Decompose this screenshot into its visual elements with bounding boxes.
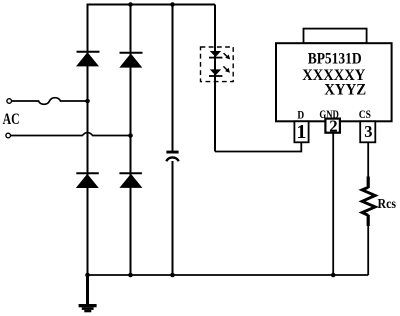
pin 1 number <box>296 121 306 143</box>
wire resistor to bottom bus <box>367 226 369 276</box>
wire bridge right vertical V2 <box>130 5 132 276</box>
pin label CS <box>359 109 371 121</box>
svg-text:CS: CS <box>359 109 371 121</box>
junction node bottom bus/GND pin <box>331 273 336 278</box>
wire GND pin down <box>332 133 334 275</box>
wire bridge left vertical V1 <box>87 4 89 276</box>
wire LED string vertical <box>214 5 216 152</box>
svg-text:1: 1 <box>296 121 306 143</box>
svg-text:2: 2 <box>329 117 337 136</box>
diode D1 (upper left) <box>76 52 100 67</box>
resistor Rcs zigzag body <box>362 187 375 215</box>
IC U1 body BP5131D <box>276 43 392 121</box>
IC U1 mounting tab <box>304 29 367 44</box>
pin label GND <box>319 109 339 121</box>
junction node bottom bus/V2 <box>128 273 133 278</box>
diode D4 (lower right) <box>119 173 142 188</box>
svg-text:D: D <box>297 109 304 121</box>
IC text XXXXXY <box>302 66 365 84</box>
label AC <box>3 111 20 128</box>
wire top bus <box>88 4 216 6</box>
diode D2 (upper right) <box>119 53 142 68</box>
junction node bottom bus/ground <box>85 273 90 278</box>
capacitor C1 top plate <box>166 151 178 154</box>
LED2 <box>209 69 222 76</box>
fuse F1 (wavy link) on top AC lead <box>12 98 88 105</box>
wire bottom bus <box>88 274 369 276</box>
LED1 emission arrow <box>224 53 231 59</box>
junction node bottom bus/cap branch <box>170 273 175 278</box>
wire D pin to LED string <box>215 142 301 152</box>
resistor Rcs lower thick lead <box>367 215 370 226</box>
label Rcs <box>378 196 397 211</box>
junction node fuse/V1 <box>85 99 90 104</box>
wire CS pin to resistor <box>367 141 369 177</box>
junction node top bus/V2 <box>128 2 133 7</box>
ground symbol <box>79 304 97 312</box>
svg-text:3: 3 <box>364 122 372 141</box>
IC text BP5131D <box>308 50 362 67</box>
LED module dashed box <box>201 47 234 82</box>
diode D3 (lower left) <box>76 173 99 188</box>
pin box 2 (GND) <box>325 119 340 133</box>
terminal AC bottom <box>6 133 11 138</box>
svg-text:AC: AC <box>3 111 20 128</box>
junction node AC bottom/V2 <box>128 133 133 138</box>
pin label D <box>297 109 304 121</box>
ground stub wire <box>86 275 89 305</box>
svg-text:Rcs: Rcs <box>378 196 397 211</box>
LED2 emission arrow <box>223 66 230 72</box>
LED1 <box>209 51 222 58</box>
pin box 1 (D) <box>294 121 308 142</box>
resistor Rcs upper thick lead <box>367 177 370 189</box>
wire capacitor branch upper <box>172 5 174 151</box>
pin 2 number <box>329 117 337 136</box>
capacitor C1 bottom curved plate <box>166 157 178 161</box>
terminal AC top <box>7 99 12 104</box>
wire capacitor branch lower <box>172 161 174 275</box>
junction node top bus/cap branch <box>170 2 175 7</box>
IC text XYYZ <box>324 81 366 99</box>
pin 3 number <box>364 122 372 141</box>
pin box 3 (CS) <box>360 121 375 142</box>
svg-text:XYYZ: XYYZ <box>324 81 366 99</box>
wire AC bottom lead with crossover hop <box>11 133 131 136</box>
